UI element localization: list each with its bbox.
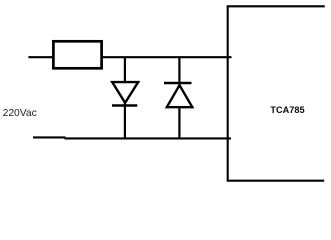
wire: bottom return to TCA785 pin (65, 137, 232, 139)
svg-text:220Vac: 220Vac (3, 108, 37, 119)
wire: diode D1 cathode down to bottom wire (124, 101, 126, 139)
diode D2 (cathode up) triangle (167, 85, 193, 107)
wire: top wire down to diode D2 cathode (178, 57, 180, 86)
diode D2 cathode bar (164, 82, 192, 84)
resistor R1 (53, 41, 101, 68)
IC U1 TCA785 outline (227, 6, 325, 181)
diode D1 cathode bar (112, 104, 137, 106)
wire: lower AC terminal segment (33, 136, 66, 138)
wire: diode D2 anode down to bottom wire (178, 107, 180, 139)
svg-text:TCA785: TCA785 (270, 105, 304, 115)
diode D1 (cathode down) triangle (112, 82, 138, 103)
wire: top wire down to diode D1 anode (124, 57, 126, 82)
wire: resistor to TCA785 pin (101, 56, 232, 58)
wire: left AC terminal to resistor (28, 56, 54, 58)
